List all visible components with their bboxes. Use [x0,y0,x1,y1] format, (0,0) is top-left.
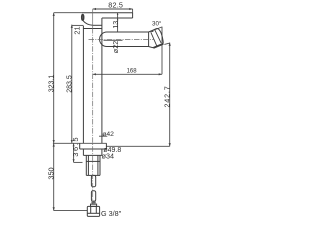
dimension line 13 vertical [117,13,119,32]
spout head inner slant line 2 [155,30,161,43]
extension tick 36.5 bottom [74,161,83,163]
svg-text:ø42: ø42 [102,131,114,138]
hose crimp band 1 [91,200,95,202]
arrow 323.1 top [53,13,55,16]
30 degree ray [150,27,162,32]
base flange right [105,143,107,149]
extension line top (lever top level to dim line) [54,12,82,14]
svg-text:13: 13 [111,21,120,29]
arrow 82.5 right [129,8,132,10]
leader diameter 22 [104,39,123,41]
arrow 13 top [117,13,119,15]
supply stud [91,175,95,186]
body left edge [82,26,84,144]
svg-text:168: 168 [127,69,138,75]
nut flat left [90,206,92,213]
svg-text:350: 350 [46,167,55,179]
shank thread root right [97,155,99,175]
extension line flange to 242.7 [106,145,169,147]
hose crimp band 2 [91,202,95,204]
spout outlet face [153,44,163,48]
svg-text:283.5: 283.5 [67,75,74,93]
tick at 242.7 top [164,43,169,44]
shank step line [86,160,100,162]
cap slope curve [83,21,93,26]
arrow 168 left [93,73,96,75]
arrow 350 bottom [53,207,55,210]
lever top edge [82,12,133,14]
svg-text:G 3/8″: G 3/8″ [101,209,122,218]
dimension line 242.7 vertical [169,43,171,147]
arrow 242.7 top [169,43,171,46]
leader diameter 42 [99,135,107,137]
lever bottom edge [102,17,133,19]
arrow 30deg ray [149,30,153,32]
arrow 36.5 top [73,143,75,146]
base flange left [79,143,81,149]
arrowheads [53,8,171,211]
arrow 13 bottom [117,18,119,20]
cap top line [93,24,102,26]
arrow 283.5 bottom [71,140,73,143]
spout tube outline [100,32,149,47]
d34 section bottom [83,154,102,156]
connector nut [87,206,99,216]
hose crimp band 3 [91,203,95,205]
arrow 350 top [53,143,55,146]
dimension line 82.5 horizontal [93,8,133,10]
shank right [99,155,101,175]
arrow 323.1 bottom [53,140,55,143]
body top line [83,28,102,30]
arrow 36.5 bottom [73,159,75,162]
extension line 21 (cap top level) [72,24,84,26]
svg-text:ø22: ø22 [111,41,120,53]
body right edge [101,18,103,143]
spout head inner slant line 1 [151,32,157,46]
dimension line 323.1/350 vertical [53,13,55,211]
svg-text:82.5: 82.5 [108,1,123,10]
svg-text:323.1: 323.1 [48,75,55,93]
deck / counter line [53,142,107,144]
extension line spout outlet vertical [161,27,163,75]
dimension line 168 horizontal [93,73,162,75]
spout head inner edge [149,47,154,48]
svg-text:30°: 30° [152,20,162,27]
lever right end [132,13,134,18]
dimension line 283.5 vertical [71,25,73,144]
shank thread root left [87,155,89,175]
hose collar [91,204,97,206]
d34 section left [82,149,84,155]
svg-text:ø34: ø34 [102,152,114,161]
nut flat right [95,206,97,213]
centerline vertical (body axis) [89,9,155,204]
arrow 82.5 left [93,8,96,10]
leader G3/8 horizontal (350 bottom) [54,210,88,212]
arrow 242.7 bottom [169,143,171,146]
nut shoulder line [87,212,99,214]
svg-text:21: 21 [72,26,81,34]
shank bottom [86,174,100,176]
hose upper section [91,191,95,201]
arrow 168 right [159,73,162,75]
base flange bottom [80,148,107,150]
spout head outline [149,29,164,44]
dimension line 36.5 vertical [73,143,75,162]
svg-text:36.5: 36.5 [71,136,80,157]
dimension texts [46,1,171,218]
d34 section right [101,149,103,155]
centerline spout axis [89,39,155,41]
svg-text:242.7: 242.7 [162,86,171,108]
spout joint line [148,32,150,47]
extension line lever right end [132,9,134,13]
shank left [85,155,87,175]
arrow 283.5 top [71,25,73,28]
lever tip cap [82,15,84,21]
